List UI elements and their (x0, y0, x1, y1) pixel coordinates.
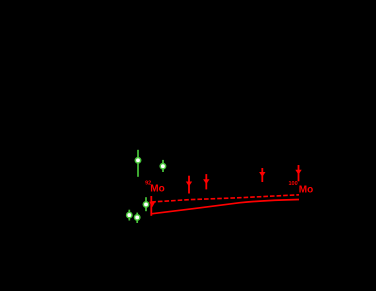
green data point P1 (135, 150, 140, 177)
theory band lower solid line (151, 200, 299, 214)
svg-text:100: 100 (289, 181, 298, 187)
theory band dashed center line (151, 195, 299, 202)
green data point P2 (160, 160, 165, 172)
green data point P4 (127, 210, 132, 221)
red limit arrow R5 (295, 165, 301, 181)
red limit arrow R2 (186, 176, 192, 194)
red limit point R1 92Mo error bar (149, 196, 155, 216)
svg-text:Mo: Mo (150, 184, 164, 195)
green data point P3 (143, 197, 148, 211)
green data point P5 (135, 213, 140, 223)
red caret marker R1 (149, 202, 155, 208)
red limit arrow R4 (259, 168, 265, 182)
red limit arrow R3 (203, 174, 209, 189)
svg-text:Mo: Mo (299, 184, 313, 195)
